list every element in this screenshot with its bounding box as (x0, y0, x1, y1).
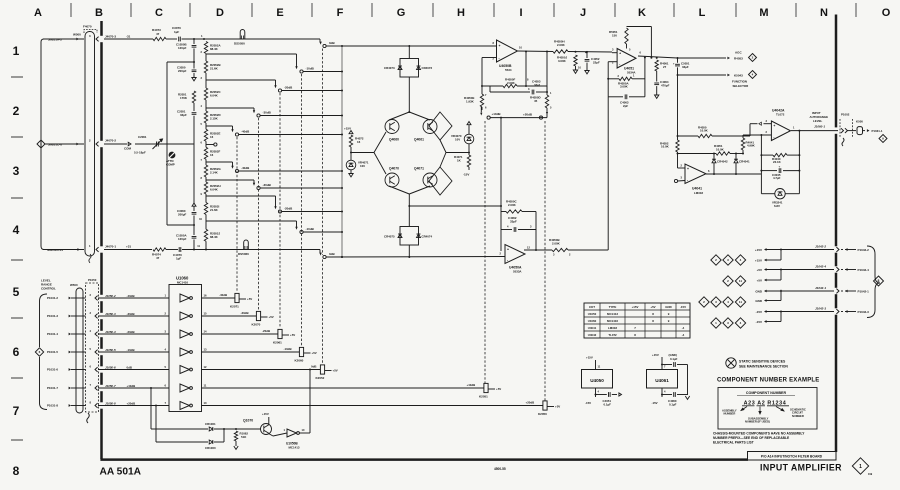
W500 top squiggle (89, 254, 91, 263)
arrow +15V arrow 1 (764, 259, 767, 262)
node power node 0 (780, 249, 782, 251)
switch contact -40dB contact (235, 133, 238, 136)
svg-text:-15V: -15V (652, 401, 658, 405)
wire tap low -30dB h (206, 179, 254, 181)
svg-text:6: 6 (13, 345, 20, 359)
arrow P1031-6 arrow (69, 368, 71, 371)
node fb node 761 170 (760, 170, 762, 172)
wire P1042-1 stub (841, 290, 843, 292)
node node 714 153 (713, 153, 715, 155)
wire CR4042 ta (713, 154, 715, 160)
bus gap 5 (100, 331, 103, 337)
svg-text:-30dB: -30dB (241, 311, 249, 315)
wire CR4041 ta (735, 154, 737, 160)
reference diamond input rail (37, 140, 45, 148)
svg-text:D: D (216, 7, 224, 19)
wire J1050-4 wire (98, 333, 169, 335)
node node 482 86 (481, 85, 483, 87)
svg-text:P1031-7: P1031-7 (47, 386, 58, 390)
wire U4050 cap wire b (612, 394, 617, 396)
wire Q1070 em to U1050B (273, 433, 287, 436)
resistor R4050A (619, 77, 632, 80)
svg-text:NUMBER PREFIX—SEE END OF REPLA: NUMBER PREFIX—SEE END OF REPLACEABLE (713, 436, 790, 440)
resistor R2052C (204, 88, 207, 100)
wire C5051 stub (677, 58, 679, 63)
wire trimmer loop bottom (167, 224, 194, 226)
wire CR4042 tb (713, 163, 715, 174)
svg-text:5: 5 (13, 285, 20, 299)
svg-text:-: - (773, 135, 774, 139)
wire K2071 +5V stub (239, 298, 246, 300)
wire -15V jumper h (767, 321, 782, 323)
svg-text:2.15K: 2.15K (210, 117, 219, 121)
reference diamond power ref (874, 276, 884, 286)
gang dashed +20dB (544, 121, 546, 401)
wire -30dB low to bus (260, 187, 342, 189)
quad diamond lower (429, 167, 452, 195)
svg-text:CR4072: CR4072 (422, 66, 433, 70)
tap low -10dB arrow (295, 227, 297, 230)
wire ladder seg 6b (205, 177, 207, 180)
diode CR1061 (209, 427, 213, 431)
svg-text:-: - (619, 62, 620, 66)
svg-text:+20dB: +20dB (523, 112, 533, 116)
wire R4041 tails (742, 135, 744, 138)
svg-text:CHASSIS-MOUNTED COMPONENTS HAV: CHASSIS-MOUNTED COMPONENTS HAVE NO ASSEM… (713, 432, 805, 436)
connector pin J1050-5 pin (95, 350, 98, 355)
resistor R2052H (204, 182, 207, 194)
op-amp U4041 (685, 164, 706, 184)
svg-text:0dB: 0dB (127, 365, 132, 369)
reference diamond sheet ref 4/302 (723, 297, 733, 307)
svg-text:CR4075: CR4075 (384, 235, 395, 239)
wire fb left v (500, 206, 502, 251)
node out node 651 (650, 57, 652, 59)
node bot junction b (205, 249, 207, 251)
capacitor C4063 (625, 94, 627, 99)
bus gap 8 (100, 385, 103, 391)
svg-text:3: 3 (13, 164, 20, 178)
svg-text:16: 16 (357, 140, 361, 144)
node power node 2 (780, 269, 782, 271)
quad wire E upper (440, 140, 446, 153)
connector pin J1050-7 pin (95, 386, 98, 391)
wire shunt low1 (193, 144, 195, 203)
arrow GND arrow 5 (764, 299, 767, 302)
quad wire W lower (374, 153, 386, 175)
arrow P1042-4 arrow (845, 268, 848, 271)
ground R4050J gnd (573, 70, 577, 73)
wire U4061 pin7 stub (661, 357, 663, 370)
resistor R2052I (204, 203, 207, 215)
node U4050 pwr node (595, 394, 597, 396)
wire out to pin2 riser (760, 135, 762, 174)
wire U4050 cap wire (596, 394, 607, 396)
P/O board box (748, 452, 837, 461)
wire R4050E tail (481, 107, 483, 110)
svg-text:MC1413: MC1413 (607, 312, 618, 316)
arrow P1042-2 arrow (845, 248, 848, 251)
svg-text:K: K (638, 7, 646, 19)
wire P1031-7 wire a (71, 387, 86, 389)
bus gap 7 (100, 366, 103, 372)
svg-text:B: B (95, 7, 103, 19)
wire fb top rung b (522, 211, 536, 213)
resistor R2052J (204, 229, 207, 241)
svg-text:5534: 5534 (505, 68, 512, 72)
wire R4050 corner up (749, 124, 751, 136)
svg-text:2.00K: 2.00K (507, 81, 516, 85)
wire trimmer loop top (167, 61, 194, 63)
wire U4061 top cap wire (662, 364, 672, 366)
svg-text:150: 150 (612, 33, 617, 37)
wire U4051 out (638, 56, 678, 58)
svg-text:GND: GND (665, 305, 671, 309)
wire CR1060 feed (155, 406, 157, 443)
wire input row 3a (43, 249, 84, 251)
P1002 dashed bracket (840, 119, 853, 137)
node node 547 92 (546, 91, 548, 93)
resistor R2052A (204, 42, 207, 54)
node U4051 in node (585, 51, 587, 53)
node node 677 136 (677, 135, 679, 137)
svg-text:-10dB: -10dB (284, 347, 292, 351)
ATTN COMP adjust (169, 152, 176, 159)
wire U4051 fb right (644, 58, 646, 97)
wire K5043 line (678, 74, 727, 76)
wire R4050H out (568, 51, 612, 54)
wire CR1061 feed (150, 388, 152, 429)
grid row dashes (11, 77, 23, 440)
inverter gate U1060 gate 3 (180, 330, 192, 338)
wire shunt mid3 (193, 73, 195, 77)
wire K500 out (863, 130, 866, 132)
U4041 pin3 null (674, 179, 677, 182)
switch contact -20dB low contact (278, 210, 281, 213)
arrow +15V arrow 0 (764, 248, 767, 251)
node out node 526 (525, 51, 527, 53)
resistor R4052 (676, 140, 679, 152)
svg-text:K2052: K2052 (316, 376, 325, 380)
ground R1062 gnd (234, 446, 238, 449)
P1031 brace (40, 294, 48, 410)
svg-text:+20dB: +20dB (127, 401, 136, 405)
svg-text:12: 12 (204, 365, 207, 369)
quad wire SE (409, 186, 430, 194)
svg-text:K500: K500 (856, 120, 863, 124)
diode CR4075 (398, 234, 402, 238)
wire row2 to COM arrow (104, 143, 127, 145)
wire ladder seg 3a (205, 108, 207, 111)
svg-text:K2050: K2050 (538, 412, 547, 416)
arrow P1031-4 arrow (69, 333, 71, 336)
svg-text:2.14K: 2.14K (210, 171, 219, 175)
svg-text:K2051: K2051 (479, 394, 488, 398)
wire quad E to zener node (446, 152, 469, 154)
wire K2050 +5V stub (547, 406, 554, 408)
svg-text:J1050-6: J1050-6 (105, 365, 116, 369)
arrow P1031-5 arrow (69, 351, 71, 354)
diode bridge lower box (400, 227, 419, 246)
connector pin J1050-8 pin (95, 403, 98, 408)
wire bridge bottom stub (408, 245, 410, 257)
svg-text:U4061: U4061 (655, 378, 669, 383)
svg-text:CR4041: CR4041 (739, 159, 750, 163)
wire input row 2a (45, 143, 84, 145)
arrow P1031-1 arrow (867, 129, 870, 132)
wire shunt low4 (193, 225, 195, 235)
connector pin J1050-2 pin (95, 296, 98, 301)
resistor R5051 (625, 28, 628, 44)
wire quad bottom stub (408, 194, 410, 227)
wire fb42 right (798, 131, 800, 194)
wire -10dB low to bus (303, 231, 342, 233)
node bus node 171 (341, 170, 343, 172)
resistor R4050H (553, 50, 568, 53)
wire ladder seg 3b (205, 123, 207, 126)
svg-text:H: H (457, 7, 465, 19)
wire -15V jumper v (780, 311, 782, 322)
svg-text:Q4071: Q4071 (414, 167, 424, 171)
component number example box (718, 388, 817, 430)
svg-text:P1050: P1050 (88, 278, 97, 282)
svg-text:-30dB: -30dB (127, 312, 135, 316)
relay K2051 (484, 383, 488, 392)
svg-text:-4: -4 (682, 333, 685, 337)
switch contact -20dB contact (278, 89, 281, 92)
wire J1050-3 wire (98, 315, 169, 317)
svg-text:2pF: 2pF (623, 104, 628, 108)
svg-text:1: 1 (13, 44, 20, 58)
wire ladder seg 2b (205, 100, 207, 108)
node node C4052 (586, 51, 588, 53)
svg-text:-40dB: -40dB (219, 293, 227, 297)
wire ladder seg 1b (205, 73, 207, 80)
svg-text:100: 100 (360, 164, 365, 168)
diode CR4074 (417, 234, 421, 238)
svg-text:TYPE: TYPE (609, 305, 617, 309)
resistor R4050F (503, 84, 517, 87)
wire pin3 stub b (764, 123, 772, 125)
svg-text:-: - (687, 178, 688, 182)
wire R4061-C4064 (656, 71, 658, 82)
svg-text:019: 019 (868, 473, 873, 476)
relay K2052 (320, 365, 324, 374)
wire shunt low5 (193, 240, 195, 250)
svg-text:1µF: 1µF (174, 30, 179, 34)
node node 156 405 (155, 405, 157, 407)
wire quad bottom to fb node (409, 205, 501, 207)
svg-text:-: - (499, 56, 500, 60)
wire tap low -20dB v (275, 196, 277, 207)
wire P1042-4 stub (841, 269, 843, 271)
ground C4064 gnd (655, 95, 659, 98)
svg-text:NUMBER: NUMBER (792, 414, 804, 418)
grid column tick marks (71, 3, 856, 17)
wire CR1061 line b (214, 428, 236, 430)
grid column letters (34, 7, 891, 19)
svg-text:6.04K: 6.04K (210, 188, 219, 192)
svg-text:47: 47 (156, 32, 160, 36)
wire J1050-6 wire (98, 369, 169, 371)
svg-text:+10dB: +10dB (127, 384, 136, 388)
wire CR1060 line a (156, 441, 208, 443)
wire +15V feed line (767, 249, 835, 251)
node junction 342 257 (341, 256, 343, 258)
svg-text:Q4070: Q4070 (389, 167, 399, 171)
svg-text:GND: GND (755, 299, 763, 303)
wire -20dB to bus (282, 90, 342, 92)
diode CR4073 (398, 66, 402, 70)
node node 677 75 (677, 74, 679, 76)
wire fb42 rung3 a (761, 193, 774, 195)
wire R4051 line b (730, 153, 743, 155)
node U4061 pwr node (661, 394, 663, 396)
node node 677 153 (677, 153, 679, 155)
bus gap 2 (100, 246, 103, 252)
wire P1042-4 stub2 (845, 269, 856, 271)
resistor R4050D (545, 95, 548, 108)
switch contact -30dB contact (257, 114, 260, 117)
resistor R4050E (480, 94, 483, 107)
svg-text:33pF: 33pF (180, 113, 187, 117)
svg-text:-10dB: -10dB (306, 67, 315, 71)
svg-text:CR4073: CR4073 (384, 66, 395, 70)
svg-text:S9181C-8: S9181C-8 (48, 143, 62, 147)
node node 743 153 (742, 153, 744, 155)
svg-text:K5043: K5043 (734, 74, 743, 78)
wire ladder seg 6a (205, 162, 207, 165)
svg-text:1: 1 (859, 464, 862, 470)
svg-text:7: 7 (13, 404, 20, 418)
static symbol (726, 358, 736, 368)
svg-text:+: + (507, 248, 509, 252)
wire U4050B out (518, 50, 554, 53)
node node 677 58 (677, 57, 679, 59)
wire CR1061 line a (151, 428, 208, 430)
svg-text:N: N (820, 7, 828, 19)
svg-text:21.6K: 21.6K (210, 67, 219, 71)
arrow -15V arrow 7 (764, 320, 767, 323)
svg-text:J1042-3: J1042-3 (815, 306, 826, 310)
svg-text:J4070-1: J4070-1 (105, 245, 116, 249)
svg-text:MC1416: MC1416 (177, 281, 188, 285)
svg-text:J1042-1: J1042-1 (815, 286, 826, 290)
connector pin J1042-2 pin (836, 247, 839, 252)
svg-text:200pF: 200pF (178, 69, 187, 73)
svg-text:M: M (759, 7, 768, 19)
transistor Q1070 (261, 424, 272, 435)
node bot junction a (193, 249, 195, 251)
inverter gate U1060 gate 1 (180, 294, 192, 302)
lamp DS5060 (244, 240, 249, 249)
inverter gate U1050B (287, 429, 299, 437)
wire R4071 tail (468, 153, 470, 156)
svg-text:P1042-1: P1042-1 (858, 289, 870, 293)
reference diamond sheet number (852, 458, 868, 474)
gang dashed +10dB (484, 121, 486, 383)
arrow GND arrow 4 (764, 290, 767, 293)
svg-text:+15V: +15V (262, 412, 269, 416)
svg-text:8: 8 (878, 279, 880, 283)
tap -20dB arrow (274, 85, 276, 88)
svg-text:J: J (580, 7, 586, 19)
svg-text:K2060: K2060 (295, 358, 304, 362)
wire CR join (223, 429, 225, 442)
capacitor C4052 (585, 60, 590, 62)
wire U4050 pin11 stub (595, 360, 597, 370)
node power node 4 (780, 290, 782, 292)
node out node 656 (656, 57, 658, 59)
right bus gap 0 (835, 127, 838, 133)
R4050D down arrow (546, 112, 548, 115)
resistor R4050B (552, 248, 568, 251)
wire +5V jumper h (767, 279, 782, 281)
svg-text:W500: W500 (70, 283, 78, 287)
wire ladder seg 7b (205, 194, 207, 196)
attenuator output bus (341, 46, 343, 257)
node out node 547 (546, 51, 548, 53)
wire U4051 pin2 wire (608, 61, 617, 63)
arrow K5043 arrow (727, 74, 730, 77)
svg-text:0.1µF: 0.1µF (669, 402, 677, 406)
svg-text:10: 10 (204, 401, 207, 405)
resistor R1062 (234, 431, 237, 441)
resistor R2052D (204, 111, 207, 123)
arrow P1031-2 arrow (69, 297, 71, 300)
svg-text:5533A: 5533A (513, 270, 522, 274)
wire pin3 stub a (750, 123, 758, 125)
power table gridlines (584, 303, 690, 338)
resistor R4051 (716, 152, 730, 155)
svg-text:C2061: C2061 (138, 135, 147, 139)
resistor R4071 (467, 155, 470, 167)
capacitor C4061 (674, 362, 676, 367)
bus gap 3 (100, 295, 103, 301)
svg-text:CKT: CKT (589, 305, 595, 309)
wire tap low -30dB v (253, 180, 255, 184)
svg-text:+31: +31 (126, 245, 131, 249)
node bus node 115.5 (341, 115, 343, 117)
svg-text:11: 11 (739, 300, 743, 304)
wire fb42 rung2 a (761, 170, 777, 172)
wire fb rung 86 a (482, 85, 503, 87)
right bus gap 3 (835, 288, 838, 294)
wire U1060 out row 0 (202, 297, 235, 299)
reference diamond sheet ref 11/302 (735, 297, 745, 307)
arrow P1031-8 arrow (69, 404, 71, 407)
wire U1060 out row 4 (202, 369, 321, 371)
wire shunt mid1 (193, 49, 195, 63)
gang dashed -20dB (279, 93, 281, 328)
svg-text:+5V: +5V (312, 351, 317, 355)
svg-text:1.93K: 1.93K (466, 99, 475, 103)
connector pin J1042-4 pin (836, 267, 839, 272)
wire -40dB low to bus (239, 170, 342, 172)
svg-text:-20dB: -20dB (284, 86, 293, 90)
wire rowb b (182, 249, 206, 251)
supply arrow bias +15V (349, 131, 353, 134)
svg-text:-40dB: -40dB (241, 130, 250, 134)
node quad apex node (408, 111, 410, 113)
svg-text:+: + (687, 167, 689, 171)
wire J1050-2 wire (98, 297, 169, 299)
wire J1050-8 wire (98, 405, 169, 407)
svg-text:33µF: 33µF (682, 65, 689, 69)
svg-text:MC1416: MC1416 (607, 319, 618, 323)
svg-text:120pF: 120pF (178, 237, 187, 241)
wire U1050B out (300, 432, 311, 434)
